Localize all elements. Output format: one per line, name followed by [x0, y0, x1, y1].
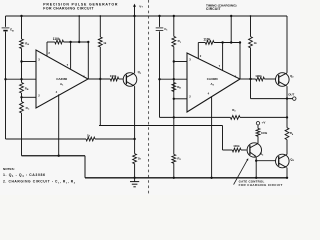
svg-text:CIRCUIT: CIRCUIT [206, 7, 221, 11]
svg-text:CA3080: CA3080 [207, 77, 218, 81]
svg-text:100k: 100k [261, 131, 268, 135]
svg-text:1k: 1k [87, 134, 91, 138]
svg-text:CA3080: CA3080 [56, 77, 67, 81]
svg-text:OUT: OUT [288, 92, 294, 96]
svg-text:+V: +V [262, 120, 266, 124]
svg-text:100k: 100k [110, 74, 117, 78]
svg-text:1k: 1k [138, 157, 142, 161]
svg-text:NOTES:: NOTES: [3, 167, 15, 171]
svg-text:FOR CHARGING CIRCUIT: FOR CHARGING CIRCUIT [239, 183, 283, 187]
svg-text:100k: 100k [233, 144, 240, 148]
svg-text:110k: 110k [53, 37, 60, 41]
svg-text:1k: 1k [103, 41, 107, 45]
svg-text:FOR CHARGING CIRCUIT: FOR CHARGING CIRCUIT [43, 7, 94, 11]
svg-text:1k: 1k [254, 41, 258, 45]
svg-text:110k: 110k [203, 37, 210, 41]
svg-text:2. CHARGING CIRCUIT - C1, R1,: 2. CHARGING CIRCUIT - C1, R1, R2 [3, 180, 76, 185]
svg-text:V+: V+ [139, 4, 143, 8]
svg-text:100k: 100k [255, 74, 262, 78]
